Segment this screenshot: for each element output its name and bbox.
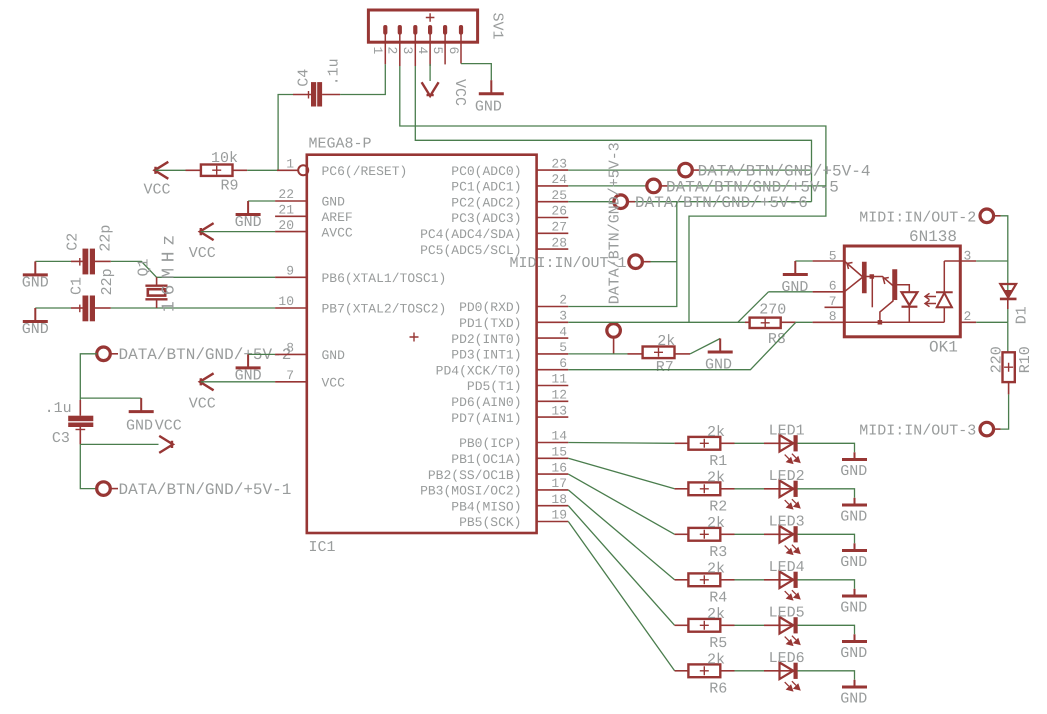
ground GND LED3 [842, 549, 867, 552]
SV1 pad pin 1 [383, 25, 387, 35]
diode D1 [1000, 284, 1017, 299]
wire SV1.6 to GND [461, 64, 491, 81]
svg-text:PD3(INT1): PD3(INT1) [451, 348, 521, 363]
R4 left lead [675, 579, 689, 581]
svg-text:GND: GND [840, 599, 867, 616]
wire port-4 to SV1.3 net [700, 169, 812, 171]
svg-text:Q1: Q1 [136, 258, 153, 276]
supply VCC near C3 [159, 436, 173, 453]
svg-text:VCC: VCC [451, 79, 468, 106]
svg-text:2: 2 [964, 309, 972, 324]
port DATA/BTN/GND/+5V-6 [614, 195, 628, 209]
svg-text:DATA/BTN/GND/+5V-2: DATA/BTN/GND/+5V-2 [119, 346, 292, 364]
svg-text:27: 27 [551, 220, 567, 235]
svg-text:3: 3 [400, 47, 415, 55]
resistor R5 [688, 619, 720, 632]
IC left pin stubs [275, 200, 307, 202]
R8 right lead [781, 321, 796, 323]
svg-text:IC1: IC1 [309, 539, 336, 556]
svg-text:21: 21 [278, 203, 294, 218]
ground GND IC pin8 [236, 354, 261, 368]
resistor R10 [1003, 352, 1015, 382]
wire LED3 to GND [797, 534, 854, 543]
R6 right lead [720, 670, 734, 672]
svg-text:GND: GND [22, 274, 49, 291]
SV1 pad pin 2 [398, 25, 402, 35]
R1 left lead [675, 442, 689, 444]
svg-text:PD4(XCK/T0): PD4(XCK/T0) [436, 363, 522, 378]
capacitor C1 [83, 296, 96, 322]
svg-text:PB6(XTAL1/TOSC1): PB6(XTAL1/TOSC1) [322, 271, 447, 286]
port DATA/BTN/GND/+5V-4 [679, 163, 693, 177]
wire LED6 to GND [797, 671, 854, 680]
svg-text:VCC: VCC [322, 376, 346, 391]
wire PC2 to port-6 [568, 201, 613, 203]
wire OK1 pin3 [976, 260, 1008, 262]
svg-text:PD6(AIN0): PD6(AIN0) [451, 395, 521, 410]
svg-text:R1: R1 [709, 453, 727, 470]
C3 lead tick [76, 429, 86, 431]
LED4 emission arrows [785, 590, 800, 600]
svg-text:25: 25 [551, 188, 567, 203]
svg-text:GND: GND [126, 417, 153, 434]
OK1 feedback arrows [925, 293, 936, 306]
SV1 pad pin 3 [413, 25, 417, 35]
svg-text:2k: 2k [707, 515, 725, 532]
svg-text:R3: R3 [709, 544, 727, 561]
R3 left lead [675, 533, 689, 535]
svg-text:2k: 2k [707, 652, 725, 669]
wire branch to VCC [80, 443, 158, 445]
svg-text:17: 17 [551, 476, 567, 491]
R9 right lead [233, 169, 248, 171]
svg-text:GND: GND [475, 99, 502, 116]
ground GND R7 [708, 339, 733, 353]
svg-text:7: 7 [286, 368, 294, 383]
LED6 emission arrows [785, 681, 800, 691]
svg-text:GND: GND [235, 214, 262, 231]
R3 right lead [720, 533, 734, 535]
GND LED2 stub [854, 498, 856, 505]
ground GND OK1 pin5 [783, 261, 808, 275]
SV1 pin leads [384, 34, 386, 64]
LED1 [780, 435, 798, 452]
wire VCC to pin7 [201, 381, 275, 383]
OK1 internal output diode and transistor [844, 285, 944, 325]
wire to OK1 pin6 [769, 291, 813, 293]
svg-text:2k: 2k [707, 561, 725, 578]
svg-text:6: 6 [559, 356, 567, 371]
SV1 polarity mark [426, 13, 435, 22]
LED6 [780, 663, 798, 680]
ground GND LED6 [842, 686, 867, 689]
wire VCC to R9 [156, 169, 186, 171]
svg-text:5: 5 [430, 47, 445, 55]
wire SV1.3 loop [415, 66, 811, 202]
wire XTAL1 net [111, 261, 275, 277]
MIDI-1 stub [642, 261, 650, 263]
GND LED6 stub [854, 680, 856, 687]
svg-text:2k: 2k [707, 424, 725, 441]
svg-text:DATA/BTN/GND/+5V-6: DATA/BTN/GND/+5V-6 [635, 194, 808, 212]
port DATA/BTN/GND/+5V-1 [97, 482, 111, 496]
ground GND SV1 pin6 [479, 80, 504, 94]
wire LED2 to GND [797, 489, 854, 498]
C1 left lead [71, 307, 83, 309]
wire down to R10 [1007, 322, 1009, 352]
svg-text:15: 15 [551, 445, 567, 460]
wire VCC to AVCC pin20 [201, 231, 275, 233]
wire pin22 to GND [248, 200, 275, 202]
svg-text:GND: GND [840, 463, 867, 480]
svg-text:OK1: OK1 [929, 339, 958, 357]
C3 top lead [79, 400, 81, 416]
svg-text:DATA/BTN/GND/+5V-1: DATA/BTN/GND/+5V-1 [119, 481, 292, 499]
svg-text:.1u: .1u [326, 58, 343, 85]
svg-text:3: 3 [964, 248, 972, 263]
svg-text:PB4(MISO): PB4(MISO) [451, 499, 521, 514]
svg-text:MIDI:IN/OUT-2: MIDI:IN/OUT-2 [859, 210, 976, 227]
SV1 pad pin 4 [428, 25, 432, 35]
optocoupler OK1 6N138 body [844, 246, 960, 337]
svg-text:PD2(INT0): PD2(INT0) [451, 332, 521, 347]
svg-text:7: 7 [829, 294, 837, 309]
svg-text:PB3(MOSI/OC2): PB3(MOSI/OC2) [420, 484, 521, 499]
supply VCC pin7 [200, 373, 214, 390]
svg-text:19: 19 [551, 508, 567, 523]
svg-text:PD1(TXD): PD1(TXD) [459, 316, 521, 331]
wire C2 to GND corner [35, 260, 71, 262]
R5 left lead [675, 624, 689, 626]
supply VCC R9 [155, 162, 169, 179]
svg-text:C4: C4 [296, 69, 313, 87]
svg-text:18: 18 [551, 492, 567, 507]
wire R2 to LED2 [735, 488, 765, 490]
svg-text:R10: R10 [1017, 346, 1034, 373]
svg-text:PC0(ADC0): PC0(ADC0) [451, 164, 521, 179]
svg-text:D1: D1 [1013, 306, 1030, 324]
wire port-2 down [80, 354, 97, 400]
wire R1 to LED1 [735, 442, 765, 444]
ground GND near C3 [129, 398, 154, 412]
wire R5 to LED5 [735, 624, 765, 626]
LED4 anode lead [764, 579, 794, 581]
svg-text:.1u: .1u [45, 400, 72, 417]
svg-text:26: 26 [551, 204, 567, 219]
svg-text:PB7(XTAL2/TOSC2): PB7(XTAL2/TOSC2) [322, 302, 447, 317]
R1 right lead [720, 442, 734, 444]
wire MIDI-1 to vertical [651, 261, 677, 263]
port-1 stub [110, 488, 118, 490]
svg-text:PB0(ICP): PB0(ICP) [459, 436, 521, 451]
svg-text:11: 11 [551, 372, 567, 387]
wire R6 to LED6 [735, 670, 765, 672]
ground GND IC pin22 [236, 201, 261, 215]
ground GND LED5 [842, 640, 867, 643]
port MIDI:IN/OUT-1 [629, 255, 643, 269]
ground GND C1 [23, 308, 48, 322]
svg-text:28: 28 [551, 235, 567, 250]
svg-text:PC6(/RESET): PC6(/RESET) [322, 164, 408, 179]
capacitor C2 [83, 249, 96, 275]
port MIDI:IN/OUT-2 [980, 209, 994, 223]
wire C1 to GND corner [35, 307, 71, 309]
LED5 [780, 617, 798, 634]
MIDI-3 stub [993, 428, 1000, 430]
port DATA/BTN/GND/+5V-2 [97, 347, 111, 361]
svg-text:PD5(T1): PD5(T1) [467, 379, 522, 394]
C1 right lead [95, 307, 111, 309]
svg-text:LED5: LED5 [769, 605, 805, 622]
wire C3 to port-1 [80, 444, 97, 488]
svg-text:9: 9 [286, 264, 294, 279]
LED5 anode lead [764, 624, 794, 626]
SV1 pad pin 5 [443, 25, 447, 35]
svg-text:4: 4 [559, 324, 567, 339]
svg-text:10k: 10k [211, 150, 238, 167]
GND LED4 stub [854, 589, 856, 596]
R2 left lead [675, 488, 689, 490]
resistor R8 [750, 318, 781, 328]
svg-text:R5: R5 [709, 635, 727, 652]
svg-text:R4: R4 [709, 590, 727, 607]
svg-text:2k: 2k [707, 470, 725, 487]
resistor R4 [688, 573, 720, 586]
svg-text:R6: R6 [709, 681, 727, 698]
svg-text:16MHz: 16MHz [160, 229, 180, 312]
wire LED1 to GND [797, 443, 854, 452]
IC right pin stubs [537, 169, 569, 171]
wire port-5 to SV1.2 net [668, 185, 826, 187]
wire PB0 to R1 [568, 442, 674, 445]
R4 right lead [720, 579, 734, 581]
svg-text:2k: 2k [657, 333, 675, 350]
wire PD1 TXD net [568, 321, 745, 323]
wire D1 to pin2 row [1007, 309, 1009, 322]
svg-text:AVCC: AVCC [322, 225, 353, 240]
svg-text:4: 4 [415, 47, 430, 55]
wire SV1.4 to VCC [429, 64, 431, 81]
port-5 stub [660, 185, 668, 187]
svg-text:22: 22 [278, 187, 294, 202]
wire R9 to IC pin 1 [247, 169, 277, 171]
C2 right lead [95, 260, 111, 262]
wire R7 diagonal [690, 339, 720, 354]
wire PC0 to port-4 [568, 169, 678, 171]
svg-text:2: 2 [385, 47, 400, 55]
svg-text:GND: GND [781, 279, 808, 296]
svg-text:C2: C2 [64, 233, 81, 251]
svg-text:1: 1 [286, 157, 294, 172]
svg-text:AREF: AREF [322, 210, 353, 225]
port-2 stub [110, 353, 118, 355]
svg-text:LED3: LED3 [769, 514, 805, 531]
svg-text:PC2(ADC2): PC2(ADC2) [451, 195, 521, 210]
svg-text:22p: 22p [99, 268, 116, 295]
C4 left lead [293, 94, 311, 96]
C4 lead tick [308, 91, 310, 99]
C4 right lead [322, 94, 340, 96]
svg-text:C1: C1 [68, 277, 85, 295]
svg-text:16: 16 [551, 460, 567, 475]
ground GND C2 [23, 261, 48, 275]
svg-text:12: 12 [551, 388, 567, 403]
svg-text:8: 8 [286, 341, 294, 356]
svg-text:10: 10 [278, 294, 294, 309]
svg-text:R7: R7 [656, 359, 674, 376]
svg-text:VCC: VCC [143, 182, 170, 199]
resistor R3 [688, 528, 720, 541]
wire OK1 pin2 [976, 321, 1008, 323]
wire LED4 to GND [797, 580, 854, 589]
svg-text:MIDI:IN/OUT-3: MIDI:IN/OUT-3 [859, 422, 976, 439]
R6 left lead [675, 670, 689, 672]
svg-text:PC4(ADC4/SDA): PC4(ADC4/SDA) [420, 227, 521, 242]
svg-text:6: 6 [446, 47, 461, 55]
LED2 emission arrows [785, 499, 800, 509]
wire C4 left to RESET net [278, 95, 293, 171]
svg-text:2: 2 [559, 293, 567, 308]
svg-text:PB2(SS/OC1B): PB2(SS/OC1B) [428, 468, 522, 483]
port-6 stub [627, 201, 635, 203]
wire branch to GND [80, 397, 141, 399]
svg-text:20: 20 [278, 218, 294, 233]
capacitor C4 [311, 82, 322, 106]
svg-text:GND: GND [840, 690, 867, 707]
svg-text:6: 6 [829, 279, 837, 294]
svg-text:PB1(OC1A): PB1(OC1A) [451, 452, 521, 467]
svg-text:24: 24 [551, 172, 567, 187]
MIDI-2 stub [993, 215, 1000, 217]
svg-text:5: 5 [559, 340, 567, 355]
LED2 anode lead [764, 488, 794, 490]
svg-text:VCC: VCC [155, 418, 182, 435]
IC origin cross [410, 333, 419, 342]
svg-text:PD7(AIN1): PD7(AIN1) [451, 411, 521, 426]
svg-text:VCC: VCC [189, 396, 216, 413]
svg-text:8: 8 [829, 309, 837, 324]
C1 lead tick [79, 305, 81, 313]
LED2 [780, 481, 798, 498]
svg-text:GND: GND [705, 356, 732, 373]
R2 right lead [720, 488, 734, 490]
D1 bottom lead [1007, 299, 1009, 309]
wire SV1.1 to C4 right [340, 64, 385, 94]
ground GND LED4 [842, 595, 867, 598]
svg-text:R2: R2 [709, 499, 727, 516]
svg-text:PC3(ADC3): PC3(ADC3) [451, 211, 521, 226]
svg-text:1: 1 [370, 47, 385, 55]
svg-text:6N138: 6N138 [909, 228, 957, 246]
IC U1 MEGA8-P body [307, 155, 537, 533]
wire pin8 to GND [248, 353, 275, 355]
wire PD4 diagonal to R8 net [568, 322, 796, 369]
GND LED3 stub [854, 543, 856, 550]
OK1 internal input LED / photodiode [844, 261, 897, 307]
GND LED5 stub [854, 634, 856, 641]
wire PB3 diagonal to R4 [568, 490, 674, 580]
port-3 stub [613, 338, 615, 354]
svg-text:PC5(ADC5/SCL): PC5(ADC5/SCL) [420, 243, 521, 258]
port MIDI:IN/OUT-3 [980, 422, 994, 436]
C3 bottom lead [79, 427, 81, 444]
supply VCC AVCC [200, 223, 214, 240]
svg-text:270: 270 [759, 302, 786, 319]
wire PB2 diagonal to R3 [568, 474, 674, 534]
svg-text:5: 5 [829, 248, 837, 263]
wire SV1.2 MIDI loop [400, 66, 826, 322]
wire port-6 to SV1.3 corner [635, 201, 812, 203]
svg-text:R9: R9 [220, 178, 238, 195]
LED4 [780, 572, 798, 589]
R7 left lead [628, 353, 643, 355]
R5 right lead [720, 624, 734, 626]
ground GND LED2 [842, 504, 867, 507]
supply VCC SV1 pin4 [422, 82, 439, 96]
wire OK1 pin5 to GND [795, 260, 812, 262]
wire PB1 diagonal to R2 [568, 458, 674, 489]
svg-text:R8: R8 [768, 331, 786, 348]
wire net to PD0 [568, 202, 677, 307]
svg-text:GND: GND [322, 348, 346, 363]
LED5 emission arrows [785, 636, 800, 646]
svg-text:LED2: LED2 [769, 468, 805, 485]
R8 left lead [745, 321, 750, 323]
LED3 anode lead [764, 533, 794, 535]
wire XTAL2 net [111, 307, 275, 309]
crystal Q1 [145, 277, 167, 308]
svg-text:13: 13 [551, 403, 567, 418]
R7 right lead [675, 353, 691, 355]
svg-text:C3: C3 [52, 430, 70, 447]
C2 lead tick [79, 258, 81, 266]
LED3 [780, 526, 798, 543]
svg-text:LED6: LED6 [769, 650, 805, 667]
R9 left lead [186, 169, 201, 171]
connector SV1 [368, 10, 477, 42]
SV1 pad pin 6 [459, 25, 463, 35]
wire LED5 to GND [797, 625, 854, 634]
svg-text:GND: GND [840, 508, 867, 525]
OK1 pin stubs [813, 261, 977, 322]
svg-text:MEGA8-P: MEGA8-P [309, 136, 372, 153]
wire R3 to LED3 [735, 533, 765, 535]
svg-text:VCC: VCC [189, 245, 216, 262]
svg-text:PC1(ADC1): PC1(ADC1) [451, 180, 521, 195]
svg-text:SV1: SV1 [489, 13, 506, 40]
svg-text:DATA/BTN/GND/+5V-3: DATA/BTN/GND/+5V-3 [607, 142, 624, 304]
resistor R9 [201, 165, 233, 176]
LED1 anode lead [764, 442, 794, 444]
port DATA/BTN/GND/+5V-5 [647, 179, 661, 193]
svg-text:LED4: LED4 [769, 559, 805, 576]
port-4 stub [692, 169, 700, 171]
wire PB5 diagonal to R6 [568, 522, 674, 671]
svg-text:PD0(RXD): PD0(RXD) [459, 300, 521, 315]
port DATA/BTN/GND/+5V-3 [607, 324, 621, 338]
svg-text:22p: 22p [97, 225, 114, 252]
LED1 emission arrows [785, 454, 800, 464]
wire R8 to OK1 pin8 [796, 321, 813, 323]
wire MIDI-2 down [1001, 216, 1008, 298]
GND LED1 stub [854, 452, 856, 459]
svg-text:2k: 2k [707, 606, 725, 623]
ground GND LED1 [842, 458, 867, 461]
LED6 anode lead [764, 670, 794, 672]
svg-text:GND: GND [840, 554, 867, 571]
LED3 emission arrows [785, 545, 800, 555]
capacitor C3 [68, 416, 93, 427]
